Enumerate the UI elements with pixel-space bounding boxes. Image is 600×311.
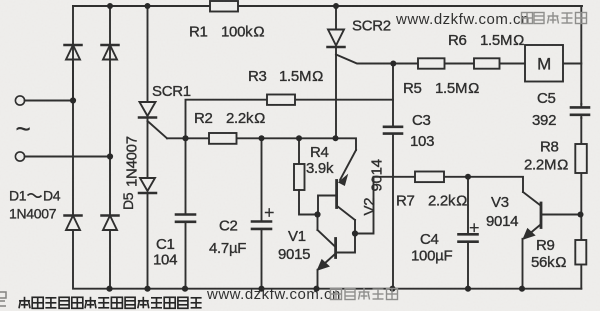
watermark bottom www.dzkfw.com.cn <box>206 286 341 303</box>
junction dots top rail <box>107 3 339 9</box>
transistor V1 <box>317 215 355 289</box>
capacitor C5 <box>571 104 589 118</box>
diode D1 <box>65 6 82 101</box>
diode D5 <box>139 178 156 289</box>
wire R3 row <box>186 100 394 139</box>
diode D3 <box>65 101 82 231</box>
wire R2 row <box>167 138 356 150</box>
wire right rail upper <box>580 6 582 104</box>
motor M <box>525 45 563 82</box>
resistor R3 <box>267 95 295 105</box>
junction dot V3 base <box>577 211 583 217</box>
label R8 <box>524 139 568 174</box>
junction dots bottom rail <box>106 286 525 292</box>
transistor V2 <box>318 150 356 234</box>
wire R7 row <box>374 177 524 192</box>
label R9 <box>531 237 566 271</box>
label C3 <box>410 112 434 150</box>
thyristor SCR1 <box>139 6 167 178</box>
label R6 <box>448 32 524 49</box>
junction dot latch A <box>314 211 320 217</box>
label M <box>537 55 551 74</box>
wire right rail mid <box>580 118 582 240</box>
label SCR2 <box>352 18 391 35</box>
capacitor C2 <box>252 138 273 288</box>
label R7 <box>396 193 467 210</box>
watermark top www.dzkfw.com.cn <box>395 11 530 28</box>
resistor R9 <box>575 240 586 265</box>
junction dot latch B <box>352 230 358 236</box>
label D5 rotated <box>120 136 141 210</box>
diode D4 <box>102 157 119 289</box>
label R2 <box>194 110 265 127</box>
capacitor C1 <box>176 138 195 288</box>
wire R5 R6 M row <box>393 63 581 65</box>
label V2 rotated <box>361 159 386 215</box>
label C5 <box>532 90 556 129</box>
watermark bottom CJK 电子开发网 <box>331 288 398 300</box>
resistor R7 <box>415 172 444 183</box>
junction dot SCR2 gate node <box>390 60 396 66</box>
resistor R6 <box>474 58 500 68</box>
resistor R4 <box>294 138 318 214</box>
wire right rail lower <box>580 265 582 289</box>
resistor R1 <box>210 1 238 12</box>
AC terminal 1 <box>15 96 73 105</box>
label C1 <box>153 236 177 269</box>
thyristor SCR2 <box>328 6 394 138</box>
junction dots R2 row <box>182 135 338 141</box>
resistor R8 <box>575 144 587 173</box>
label C4 <box>411 231 452 265</box>
caption pseudo CJK 无静态功耗触摸延熄开关电路 <box>19 297 202 309</box>
label V3 <box>486 194 518 230</box>
capacitor C4 <box>459 177 479 289</box>
resistor R5 <box>418 58 445 68</box>
junction dot terminal2 <box>107 153 113 159</box>
junction dot R7 C4 <box>465 174 471 180</box>
label R3 <box>248 68 323 85</box>
label D1-D4 <box>9 188 61 222</box>
transistor V3 <box>523 192 581 289</box>
label C2 <box>209 218 246 258</box>
wire bottom rail <box>73 60 581 289</box>
diode D2 <box>102 6 119 157</box>
edge smudge bottom left <box>0 292 6 306</box>
resistor R2 <box>209 133 237 144</box>
label tilde AC <box>16 114 31 144</box>
label R4 <box>306 144 334 177</box>
label R1 <box>189 24 264 41</box>
label SCR1 <box>152 83 191 100</box>
wire top rail <box>73 5 582 7</box>
label V1 <box>278 228 310 263</box>
AC terminal 2 <box>15 152 110 161</box>
wire latch to R7 <box>355 177 374 234</box>
label R5 <box>403 80 479 97</box>
junction dot terminal1 <box>70 97 76 103</box>
watermark top CJK 电子开发网 <box>522 12 587 24</box>
capacitor C3 <box>384 64 402 289</box>
